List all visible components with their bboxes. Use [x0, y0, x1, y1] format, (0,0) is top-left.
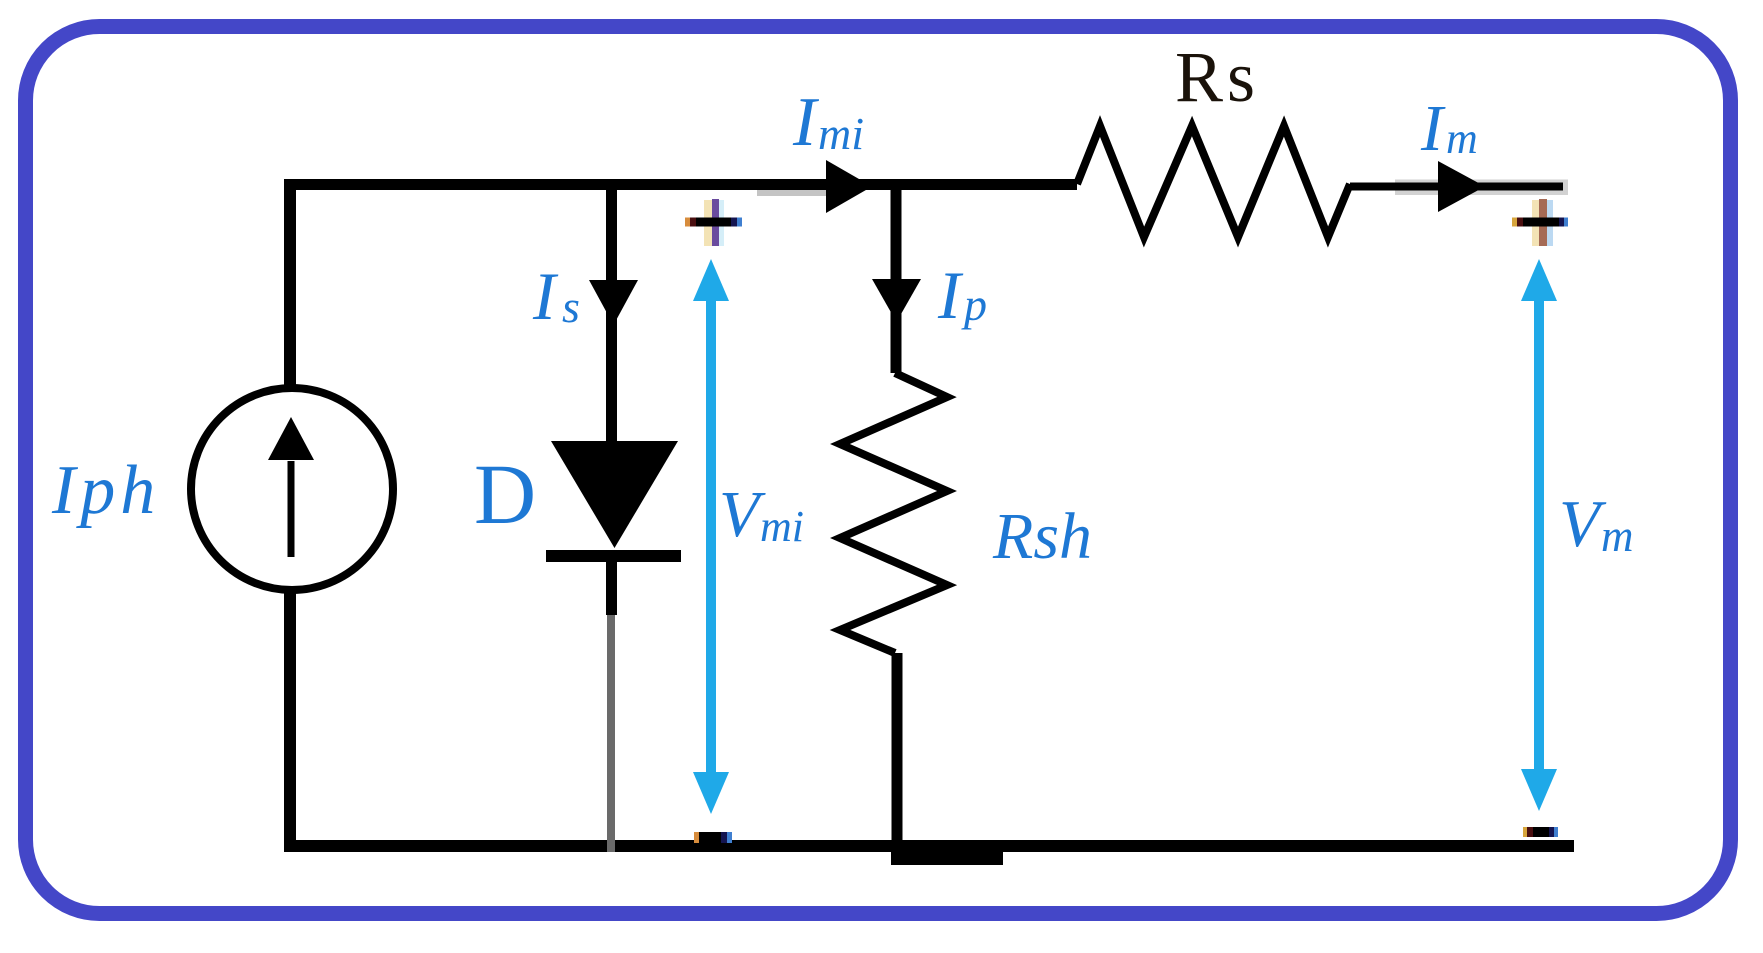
current arrow Is [589, 280, 638, 325]
svg-text:I: I [532, 258, 559, 334]
current arrow Ip [872, 279, 921, 322]
svg-text:m: m [1601, 511, 1634, 561]
svg-text:Rs: Rs [1175, 37, 1259, 117]
svg-text:I: I [792, 84, 820, 161]
svg-text:mi: mi [760, 502, 804, 551]
svg-text:V: V [1559, 487, 1607, 561]
minus sign Vmi [694, 832, 732, 843]
svg-text:Rsh: Rsh [992, 500, 1092, 573]
wire output right [1395, 180, 1568, 196]
svg-text:I: I [1420, 92, 1446, 165]
svg-text:p: p [961, 279, 987, 330]
wire left vertical lower [284, 588, 296, 852]
svg-text:D: D [474, 446, 536, 542]
wire bottom bus thick segment [891, 846, 1003, 865]
svg-text:mi: mi [818, 108, 864, 159]
resistor Rs [1077, 126, 1350, 237]
wire top bus left section [284, 179, 1077, 190]
wire diode branch lower stub [606, 550, 617, 615]
current arrow Im [1438, 161, 1485, 212]
resistor Rsh [840, 373, 947, 653]
svg-text:Iph: Iph [51, 452, 160, 529]
svg-text:V: V [719, 478, 766, 551]
diode D [551, 441, 678, 548]
current source Iph [191, 388, 393, 590]
current arrow Imi [826, 160, 872, 213]
wire diode branch lower gray [607, 615, 615, 852]
svg-text:m: m [1446, 114, 1478, 163]
wire shunt branch upper [891, 184, 902, 373]
svg-text:I: I [937, 257, 964, 333]
minus sign Vm [1523, 827, 1558, 837]
wire left vertical upper [284, 179, 296, 391]
measurement arrow Vm [1521, 259, 1557, 811]
wire diode branch upper [606, 184, 617, 441]
measurement arrow Vmi [693, 259, 729, 814]
plus sign Vm [1512, 199, 1568, 246]
plus sign Vmi [685, 199, 742, 246]
wire bottom bus [284, 840, 1574, 852]
wire shunt branch lower [892, 653, 903, 852]
svg-text:s: s [562, 281, 580, 332]
wire shadow left of Imi arrow [757, 190, 826, 196]
